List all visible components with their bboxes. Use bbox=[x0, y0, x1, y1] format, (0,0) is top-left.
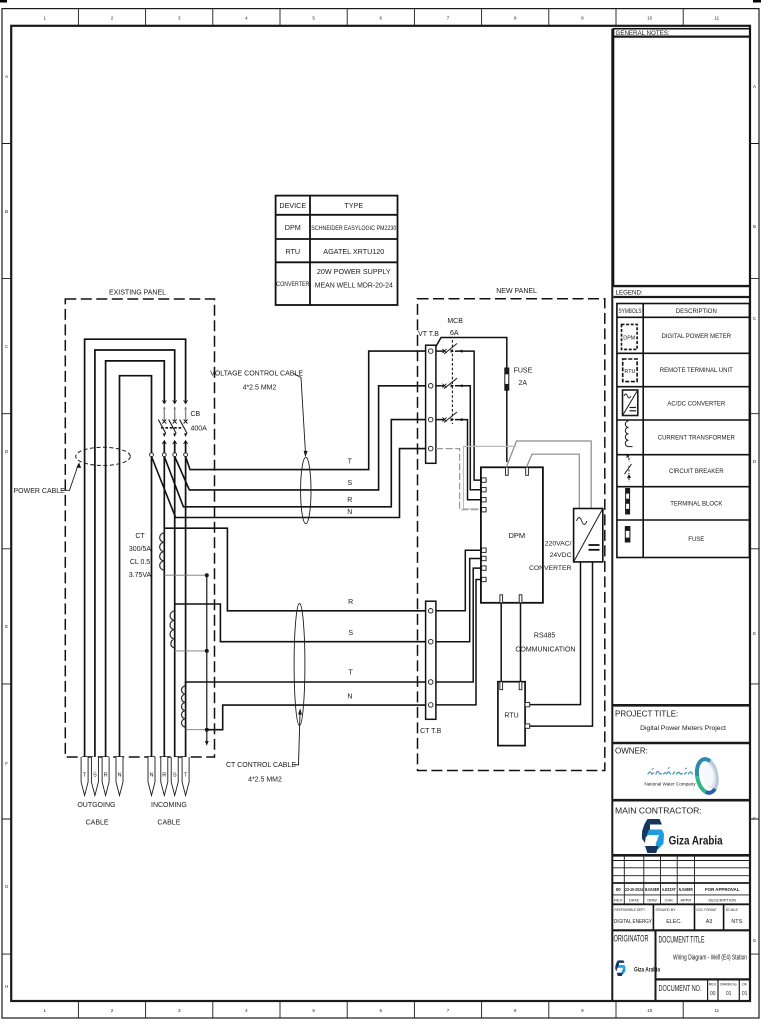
legend symbol AC/DC converter bbox=[623, 390, 638, 416]
svg-text:E: E bbox=[753, 631, 756, 636]
outgoing terminal T bbox=[81, 757, 88, 796]
svg-text:LEGEND:: LEGEND: bbox=[616, 290, 643, 297]
busbar loop S bbox=[95, 350, 175, 757]
svg-text:REV.: REV. bbox=[709, 983, 717, 987]
converter DC output wire - bbox=[530, 562, 593, 726]
svg-text:S: S bbox=[173, 772, 177, 778]
gray wire VT N to DPM bbox=[436, 449, 481, 510]
svg-text:R: R bbox=[348, 599, 353, 606]
svg-text:OWNER:: OWNER: bbox=[615, 747, 648, 756]
svg-text:DRAWING No.: DRAWING No. bbox=[720, 983, 737, 987]
RS485 wire A bbox=[500, 603, 502, 682]
RTU top pins bbox=[500, 682, 503, 690]
svg-text:POWER CABLE: POWER CABLE bbox=[14, 488, 66, 495]
main contractor block with Giza Arabia logo bbox=[612, 806, 750, 856]
MCB 6A pole 1 bbox=[436, 344, 481, 481]
svg-text:EXISTING PANEL: EXISTING PANEL bbox=[109, 290, 166, 297]
svg-text:TERMINAL BLOCK: TERMINAL BLOCK bbox=[670, 502, 722, 508]
svg-text:N: N bbox=[347, 509, 352, 516]
svg-text:COMMUNICATION: COMMUNICATION bbox=[515, 647, 575, 654]
svg-text:PROJECT TITLE:: PROJECT TITLE: bbox=[615, 710, 678, 719]
gray AC wire to converter (line) bbox=[507, 441, 591, 509]
MCB mechanical link bbox=[451, 340, 453, 424]
voltage tap wire R bbox=[164, 420, 425, 507]
svg-text:VOLTAGE CONTROL CABLE: VOLTAGE CONTROL CABLE bbox=[210, 371, 303, 378]
current wire R bbox=[164, 528, 425, 611]
svg-text:23-10-2024: 23-10-2024 bbox=[625, 887, 643, 892]
svg-text:S: S bbox=[347, 480, 352, 487]
svg-text:G: G bbox=[5, 884, 9, 889]
svg-text:CT CONTROL CABLE: CT CONTROL CABLE bbox=[226, 762, 296, 769]
outgoing terminal N bbox=[116, 757, 123, 796]
svg-text:4*2.5 MM2: 4*2.5 MM2 bbox=[248, 776, 282, 783]
svg-text:Digital Power Meters Project: Digital Power Meters Project bbox=[640, 725, 726, 732]
svg-text:DOCUMENT TITLE: DOCUMENT TITLE bbox=[659, 935, 705, 945]
svg-text:S: S bbox=[93, 772, 97, 778]
svg-text:DPM: DPM bbox=[285, 223, 301, 232]
outgoing terminal R bbox=[102, 757, 109, 796]
svg-text:RTU: RTU bbox=[285, 247, 300, 256]
svg-text:CL 0.5: CL 0.5 bbox=[130, 559, 150, 566]
svg-text:MEAN WELL MDR-20-24: MEAN WELL MDR-20-24 bbox=[315, 281, 393, 290]
svg-text:FUSE: FUSE bbox=[688, 537, 704, 543]
DPM left voltage pins bbox=[482, 478, 487, 482]
svg-text:S: S bbox=[348, 630, 353, 637]
NWC swirl logo bbox=[694, 758, 719, 795]
svg-text:ORIGINATOR: ORIGINATOR bbox=[614, 934, 649, 944]
svg-text:NEW PANEL: NEW PANEL bbox=[496, 288, 537, 295]
svg-text:Giza Arabia: Giza Arabia bbox=[669, 834, 723, 848]
svg-text:N: N bbox=[347, 694, 352, 701]
svg-text:T: T bbox=[184, 772, 188, 778]
svg-text:FUSE: FUSE bbox=[514, 367, 533, 374]
new panel enclosure bbox=[418, 299, 605, 771]
responsible row bbox=[612, 904, 750, 930]
RS485 wire B bbox=[520, 603, 522, 682]
bus wires below CB down to incoming terminals bbox=[164, 442, 185, 758]
legend symbol current transformer bbox=[625, 421, 632, 447]
svg-text:Giza Arabia: Giza Arabia bbox=[634, 967, 660, 974]
voltage control cable marker bbox=[301, 457, 311, 523]
svg-text:RTU: RTU bbox=[504, 713, 518, 720]
digital power meter DPM bbox=[481, 467, 543, 603]
RTU right pins bbox=[525, 702, 530, 706]
svg-text:GENERAL NOTES:: GENERAL NOTES: bbox=[616, 30, 670, 37]
current transformer CT2 (phase S) bbox=[170, 611, 175, 648]
svg-text:DPM: DPM bbox=[508, 531, 525, 540]
voltage tap wire S bbox=[175, 386, 426, 490]
power cable marker bbox=[76, 447, 131, 465]
fuse to DPM wire bbox=[506, 390, 508, 462]
svg-text:INCOMING: INCOMING bbox=[151, 802, 187, 809]
svg-text:ISSUED BY: ISSUED BY bbox=[656, 908, 677, 912]
current transformer CT3 (phase T) bbox=[182, 686, 186, 727]
svg-text:APPR: APPR bbox=[680, 898, 691, 903]
svg-text:CABLE: CABLE bbox=[86, 820, 109, 827]
CB mechanical link bbox=[161, 427, 183, 429]
svg-text:R: R bbox=[347, 497, 352, 504]
incoming terminal R bbox=[161, 757, 168, 796]
svg-text:01: 01 bbox=[726, 991, 732, 997]
svg-text:11: 11 bbox=[714, 16, 719, 21]
svg-text:CB: CB bbox=[191, 411, 201, 418]
svg-text:10: 10 bbox=[647, 16, 653, 21]
node R bbox=[162, 453, 166, 457]
svg-text:N.SABER: N.SABER bbox=[679, 887, 694, 892]
column edges bbox=[612, 29, 750, 1001]
existing panel enclosure bbox=[65, 299, 214, 757]
svg-text:CIRCUIT BREAKER: CIRCUIT BREAKER bbox=[669, 469, 724, 475]
incoming terminal T bbox=[182, 757, 189, 796]
current wire T bbox=[186, 682, 426, 686]
terminal block VT T.B bbox=[418, 331, 439, 463]
node N bbox=[150, 453, 154, 457]
legend symbol circuit breaker bbox=[625, 455, 632, 482]
originator / document title block bbox=[614, 930, 751, 1001]
light gray neutral link bbox=[464, 446, 517, 508]
svg-text:ELEC.: ELEC. bbox=[666, 919, 682, 925]
CT3 secondary lead bbox=[186, 729, 207, 731]
DPM bottom pins bbox=[500, 595, 503, 603]
svg-text:01: 01 bbox=[742, 991, 748, 997]
DPM top pins bbox=[506, 467, 509, 475]
svg-text:RESPONSIBLE DEPT.: RESPONSIBLE DEPT. bbox=[615, 908, 646, 912]
svg-text:SCALE: SCALE bbox=[726, 908, 739, 912]
DEVICE TABLE bbox=[276, 196, 398, 305]
CT2 secondary lead bbox=[175, 650, 207, 652]
busbar loop R bbox=[106, 361, 165, 757]
project title block bbox=[612, 705, 750, 743]
svg-text:B.NASER: B.NASER bbox=[645, 887, 660, 892]
circuit breaker CB 400A pole S bbox=[169, 400, 177, 444]
svg-text:CONVERTER: CONVERTER bbox=[276, 281, 309, 288]
svg-text:3.75VA: 3.75VA bbox=[129, 572, 152, 579]
svg-text:AGATEL XRTU120: AGATEL XRTU120 bbox=[323, 247, 384, 256]
current wire S bbox=[175, 604, 426, 642]
svg-text:24VDC: 24VDC bbox=[550, 552, 572, 559]
svg-text:G: G bbox=[753, 938, 757, 943]
svg-text:F: F bbox=[5, 761, 8, 766]
outgoing terminal S bbox=[91, 757, 98, 796]
svg-text:RTU: RTU bbox=[624, 369, 635, 375]
svg-text:00: 00 bbox=[710, 991, 716, 997]
svg-text:N: N bbox=[149, 772, 153, 778]
svg-text:T: T bbox=[83, 772, 87, 778]
svg-text:CT T.B: CT T.B bbox=[420, 728, 441, 735]
remote terminal unit RTU bbox=[498, 682, 530, 746]
fuse F 2A bbox=[505, 367, 533, 390]
svg-text:B: B bbox=[5, 209, 8, 214]
svg-text:11: 11 bbox=[714, 1008, 719, 1013]
svg-text:T: T bbox=[348, 458, 353, 465]
svg-text:SCHNEIDER EASYLOGIC PM2230: SCHNEIDER EASYLOGIC PM2230 bbox=[311, 225, 396, 232]
CT value label bbox=[129, 533, 152, 579]
svg-text:CURRENT TRANSFORMER: CURRENT TRANSFORMER bbox=[658, 436, 736, 442]
svg-text:A.EZZAT: A.EZZAT bbox=[662, 887, 676, 892]
voltage tap wire T bbox=[186, 351, 426, 470]
junction dot 3 bbox=[205, 728, 209, 732]
converter DC output wire + bbox=[530, 562, 581, 705]
general notes box bbox=[614, 29, 751, 286]
gray AC wire to converter (neutral) bbox=[527, 454, 579, 508]
MCB 6A pole 2 bbox=[436, 378, 481, 490]
CT1 secondary lead bbox=[164, 574, 207, 576]
DPM left current pins bbox=[482, 548, 487, 552]
svg-text:TYPE: TYPE bbox=[344, 201, 363, 210]
svg-text:Wiring Diagram - Well (E4) Sta: Wiring Diagram - Well (E4) Station bbox=[673, 953, 747, 962]
current wire N (CT common) bbox=[207, 705, 426, 730]
node S bbox=[173, 453, 177, 457]
svg-text:F: F bbox=[753, 816, 756, 821]
svg-text:R: R bbox=[104, 772, 108, 778]
svg-text:300/5A: 300/5A bbox=[129, 546, 152, 553]
svg-text:VT T.B: VT T.B bbox=[418, 331, 439, 338]
CT T.B to DPM wire N bbox=[436, 580, 481, 705]
junction dot 2 bbox=[205, 649, 209, 653]
svg-text:B: B bbox=[753, 224, 756, 229]
svg-text:DPM: DPM bbox=[623, 335, 635, 341]
MCB 6A pole 3 bbox=[436, 412, 481, 500]
svg-text:AC/DC CONVERTER: AC/DC CONVERTER bbox=[667, 402, 726, 408]
svg-text:2A: 2A bbox=[519, 380, 528, 387]
svg-text:DEVICE: DEVICE bbox=[279, 201, 306, 210]
node T bbox=[184, 453, 188, 457]
incoming terminal N bbox=[148, 757, 155, 796]
fuse feed wire bbox=[436, 338, 507, 369]
owner block with National Water Company logo bbox=[612, 747, 750, 801]
svg-text:MAIN CONTRACTOR:: MAIN CONTRACTOR: bbox=[615, 806, 702, 816]
voltage tap wire N bbox=[152, 449, 426, 518]
svg-text:A3: A3 bbox=[706, 919, 713, 925]
busbar loop N bbox=[120, 376, 152, 757]
svg-text:20W POWER SUPPLY: 20W POWER SUPPLY bbox=[317, 267, 391, 276]
svg-text:SYMBOLS: SYMBOLS bbox=[619, 309, 642, 315]
CT control cable marker bbox=[294, 604, 305, 726]
svg-text:MCB: MCB bbox=[447, 318, 463, 325]
svg-text:E: E bbox=[5, 624, 8, 629]
svg-text:OUTGOING: OUTGOING bbox=[77, 802, 115, 809]
svg-text:N: N bbox=[117, 772, 121, 778]
svg-text:CT: CT bbox=[135, 533, 145, 540]
svg-text:DOCUMENT NO.: DOCUMENT NO. bbox=[659, 983, 702, 993]
circuit breaker CB 400A pole T bbox=[180, 400, 188, 444]
svg-text:00: 00 bbox=[616, 887, 621, 892]
svg-text:4*2.5 MM2: 4*2.5 MM2 bbox=[243, 384, 277, 391]
svg-text:R: R bbox=[162, 772, 166, 778]
AC/DC converter 220VAC/24VDC bbox=[529, 509, 603, 573]
svg-text:OF: OF bbox=[742, 983, 748, 987]
CT T.B to DPM wire S bbox=[436, 559, 481, 642]
svg-text:T: T bbox=[348, 670, 353, 677]
svg-text:400A: 400A bbox=[191, 426, 208, 433]
circuit breaker CB 400A pole R bbox=[158, 400, 166, 444]
legend symbol fuse bbox=[625, 527, 630, 543]
CT T.B to DPM wire R bbox=[436, 550, 481, 611]
corner marks bbox=[0, 0, 7, 3]
svg-text:DRW: DRW bbox=[647, 898, 657, 903]
svg-text:REMOTE TERMINAL UNIT: REMOTE TERMINAL UNIT bbox=[660, 368, 733, 374]
small giza logo bbox=[615, 960, 625, 976]
svg-text:NTS: NTS bbox=[731, 919, 742, 925]
svg-text:DESCRIPTION: DESCRIPTION bbox=[676, 309, 717, 315]
terminal block CT T.B bbox=[420, 601, 441, 735]
svg-text:National Water Company: National Water Company bbox=[644, 782, 696, 787]
svg-text:DESCRIPTION: DESCRIPTION bbox=[709, 898, 736, 903]
svg-text:220VAC/: 220VAC/ bbox=[545, 540, 572, 547]
busbar loop T (outgoing T / incoming T) bbox=[85, 339, 186, 757]
junction dot 1 bbox=[205, 573, 209, 577]
legend section bbox=[614, 290, 751, 558]
CT common return wire bbox=[206, 575, 208, 741]
svg-text:A: A bbox=[5, 74, 8, 79]
RIGHT COLUMN bbox=[612, 29, 750, 1001]
svg-text:CHK: CHK bbox=[665, 898, 674, 903]
svg-text:RS485: RS485 bbox=[534, 633, 556, 640]
legend symbol terminal block bbox=[626, 489, 630, 515]
svg-text:DATE: DATE bbox=[629, 898, 640, 903]
svg-text:DIGITAL ENERGY: DIGITAL ENERGY bbox=[614, 919, 652, 925]
legend symbol DPM bbox=[622, 324, 638, 349]
svg-text:DIGITAL POWER METER: DIGITAL POWER METER bbox=[661, 334, 731, 340]
revision table bbox=[612, 855, 750, 904]
current transformer CT1 (phase R) bbox=[160, 533, 165, 570]
svg-text:A: A bbox=[753, 84, 756, 89]
incoming terminal S bbox=[171, 757, 178, 796]
svg-text:REV: REV bbox=[614, 898, 623, 903]
legend symbol RTU bbox=[623, 359, 637, 382]
svg-text:10: 10 bbox=[647, 1008, 653, 1013]
svg-text:DOC. FORMAT: DOC. FORMAT bbox=[697, 908, 718, 912]
svg-text:CONVERTER: CONVERTER bbox=[529, 565, 572, 572]
svg-text:H: H bbox=[5, 984, 8, 989]
svg-text:6A: 6A bbox=[450, 330, 459, 337]
svg-text:CABLE: CABLE bbox=[157, 820, 180, 827]
CT T.B to DPM wire T bbox=[436, 568, 481, 682]
svg-text:FOR APPROVAL: FOR APPROVAL bbox=[705, 887, 740, 892]
